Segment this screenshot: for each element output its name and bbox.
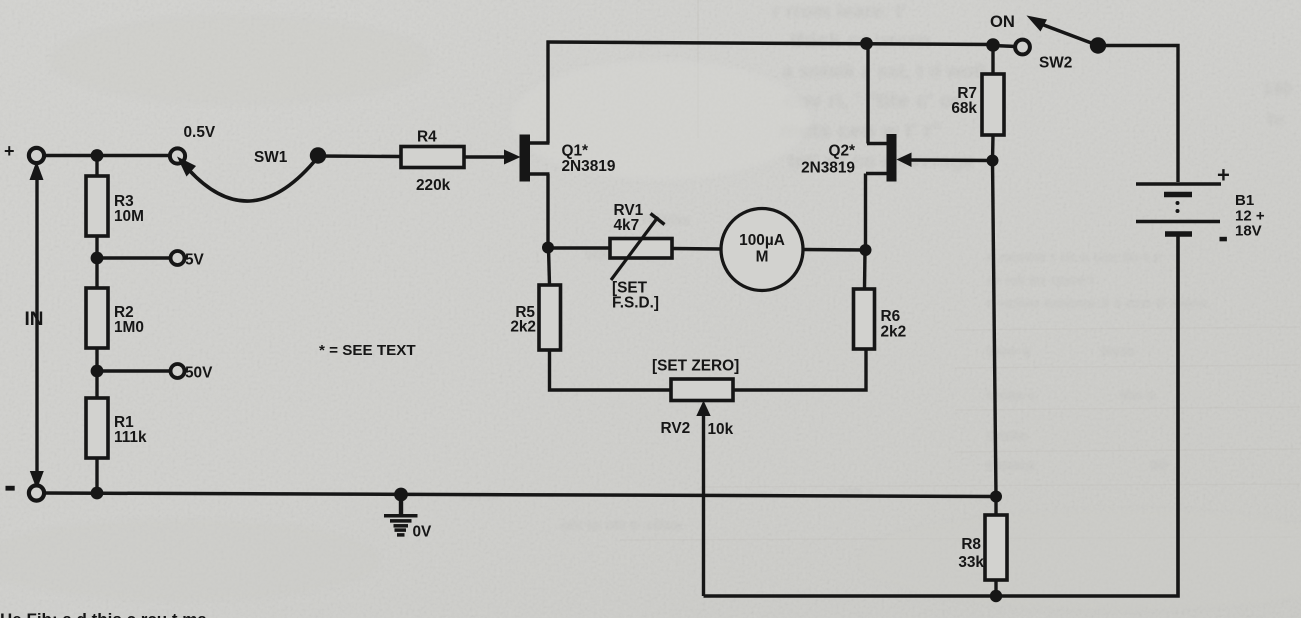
svg-text:140: 140 (1262, 79, 1292, 99)
wire: R4 to Q1 gate (arrow) (464, 155, 507, 158)
svg-text:0.5V: 0.5V (184, 124, 216, 141)
wire: 0V rail (43, 493, 996, 497)
wire+arrow: Q2 gate (909, 158, 993, 162)
resistor R2 (86, 288, 108, 348)
wire: battery negative down right side to bottom rail (704, 237, 1179, 597)
RV2 wiper arrow down to battery negative rail (702, 413, 705, 596)
wire: RV2 to R6 bottom (733, 349, 866, 390)
terminal + (input) (29, 148, 44, 163)
svg-text:t00 s: t00 s (840, 485, 874, 502)
wire: R2 to R1 (95, 348, 98, 398)
resistor R8 (985, 515, 1007, 580)
svg-text:50V: 50V (185, 365, 213, 382)
potentiometer RV2 body (671, 379, 733, 401)
svg-text:68k: 68k (951, 100, 977, 117)
resistor R1 (86, 398, 108, 458)
svg-text:M: M (756, 249, 769, 266)
terminal 0.5V tap (170, 148, 185, 163)
resistor R6 (854, 289, 875, 349)
wire: R8 top lead (994, 497, 997, 516)
svg-text:a solaik z sst, t d wolt.: a solaik z sst, t d wolt. (782, 61, 992, 83)
svg-text:r' normti t vs a ssv tiv t e: r' normti t vs a ssv tiv t e (986, 249, 1161, 266)
svg-text:100µA: 100µA (739, 232, 785, 249)
svg-text:* = SEE TEXT: * = SEE TEXT (319, 342, 416, 359)
wire: Q2 drain to top rail (866, 44, 869, 144)
Q1 drain stub (530, 141, 550, 145)
svg-text:+: + (1217, 163, 1230, 188)
wire: top supply rail (547, 42, 994, 45)
node: 5V junction (91, 252, 104, 265)
svg-text:4k7: 4k7 (614, 217, 640, 234)
svg-text:He Fib: a d this c rcu t ma: He Fib: a d this c rcu t ma (0, 610, 207, 618)
svg-text:r rrom leare: t': r rrom leare: t' (772, 1, 907, 23)
wire: SW1 to R4 (318, 154, 401, 158)
wire: R3 to R2 (95, 236, 98, 288)
node: Q2 source junction (860, 244, 872, 256)
transistor Q2 2N3819 channel bar (887, 134, 897, 182)
meter M 100uA (721, 209, 803, 291)
svg-text:tt0: tt0 (1150, 457, 1168, 474)
wire: R7 top lead (991, 45, 994, 74)
Q2 drain stub (867, 142, 887, 146)
node: 50V junction (91, 365, 104, 378)
wire: Q1 source down (546, 174, 549, 248)
terminal 5V tap (171, 251, 185, 265)
wire: Q2 source down (864, 174, 867, 251)
svg-text:33k: 33k (958, 554, 984, 571)
wire: R6 top lead (863, 250, 867, 289)
svg-text:IN: IN (25, 309, 44, 330)
svg-text:R6: R6 (881, 308, 901, 325)
svg-text:18V: 18V (1235, 223, 1262, 240)
svg-text:Q1*: Q1* (562, 143, 589, 160)
node: SW2 to battery (1090, 37, 1106, 53)
node: R8 top on 0V rail (990, 491, 1002, 503)
wire: junction to RV1 (548, 246, 610, 249)
svg-text:2N3819: 2N3819 (562, 158, 616, 175)
switch SW2 lever with arrow (1041, 24, 1098, 46)
node: R1 bottom on 0V rail (91, 487, 104, 500)
svg-text:or rot be qoec't: or rot be qoec't (986, 272, 1095, 289)
wire: 50V tap (97, 369, 171, 372)
RV1 adjust diagonal (611, 217, 658, 280)
svg-text:R4: R4 (417, 129, 437, 146)
wire: Q1 drain to top rail (546, 41, 549, 144)
label battery - (1220, 237, 1227, 242)
svg-text:111k: 111k (114, 429, 147, 446)
svg-text:SW2: SW2 (1039, 55, 1072, 72)
svg-text:t0o s: t0o s (1120, 387, 1155, 404)
wire: RV1 to meter (672, 247, 721, 251)
node: SW2 pole junction (986, 38, 1000, 52)
node: R8 bottom on negative rail (990, 590, 1002, 602)
faint column rule ghost (697, 0, 699, 138)
svg-text:[SET ZERO]: [SET ZERO] (652, 358, 739, 375)
svg-text:Y00Oa: Y00Oa (640, 212, 690, 229)
svg-text:1M0: 1M0 (114, 319, 144, 336)
node: divider top junction (91, 149, 104, 162)
svg-text:Q2*: Q2* (828, 143, 855, 160)
wire: R5 top lead (549, 248, 550, 285)
wire: + terminal to 0.5V tap (43, 154, 171, 157)
svg-text:0V: 0V (413, 524, 433, 541)
switch SW1 wiper arc (189, 157, 318, 201)
svg-text:2k2: 2k2 (881, 324, 907, 341)
svg-text:10k: 10k (708, 421, 734, 438)
svg-text:cuv ri, ' "tite c' oe: cuv ri, ' "tite c' oe (784, 88, 965, 113)
svg-text:220k: 220k (416, 177, 451, 194)
wire: R5 bottom to RV2 (550, 350, 672, 390)
ground symbol 0V (384, 494, 418, 535)
svg-text:trveta: trveta (986, 427, 1028, 444)
battery B1 plates (1136, 184, 1221, 234)
svg-text:R8: R8 (961, 536, 981, 553)
wire: gate junction down to 0V rail (993, 161, 997, 497)
svg-text:ntuoca: ntuoca (986, 457, 1036, 474)
wire: R7 bottom to gate junction (991, 135, 995, 161)
node: SW1 pole (310, 147, 326, 163)
svg-text:F.S.D.]: F.S.D.] (612, 295, 659, 312)
node: ground tap on 0V rail (394, 488, 408, 502)
svg-text:thick cr urcrn: thick cr urcrn (790, 28, 931, 53)
wire: R8 bottom lead (994, 580, 997, 596)
Q2 source stub (866, 172, 887, 176)
svg-text:tu: tu (1267, 109, 1284, 129)
svg-text:B1: B1 (1235, 192, 1254, 209)
svg-text:ON: ON (990, 12, 1015, 31)
potentiometer RV1 body (610, 239, 672, 259)
svg-text:2k2: 2k2 (510, 319, 536, 336)
node: Q2 drain to rail (860, 37, 873, 50)
resistor R3 (86, 176, 108, 236)
wire: SW2 pole stub (993, 46, 1016, 47)
wire: SW2 to battery positive (1098, 46, 1178, 183)
resistor R5 (539, 285, 561, 350)
svg-text:SW1: SW1 (254, 149, 288, 166)
svg-text:2N3819: 2N3819 (801, 160, 855, 177)
svg-text:+: + (4, 141, 15, 161)
wire: meter to Q2 source junction (803, 248, 866, 252)
svg-text:RV2: RV2 (661, 420, 691, 437)
label - (6, 486, 15, 491)
wire: R3 top lead (95, 156, 98, 177)
svg-text:10M: 10M (114, 208, 144, 225)
faint table rules showing through lower right (620, 327, 1300, 540)
wire: 5V tap (97, 256, 171, 259)
resistor R4 (401, 147, 464, 168)
node: Q1 source junction (542, 242, 554, 254)
wire: R1 bottom lead (95, 458, 98, 493)
svg-text:tncte: tncte (1100, 343, 1136, 360)
switch SW2 contact (1015, 40, 1030, 55)
IN dimension arrow (30, 161, 44, 490)
terminal - (input) (29, 485, 44, 500)
svg-text:5V: 5V (185, 252, 205, 269)
resistor R7 (982, 74, 1004, 135)
transistor Q1 2N3819 channel bar (520, 135, 531, 182)
terminal 50V tap (171, 364, 185, 378)
show-through ghost text (decorative, from reverse page) (772, 1, 1292, 173)
Q1 source stub (530, 172, 550, 176)
svg-text:o0t ta v0t tr c0tec: o0t ta v0t tr c0tec (560, 517, 683, 534)
node: R7/Q2 gate junction (987, 155, 999, 167)
